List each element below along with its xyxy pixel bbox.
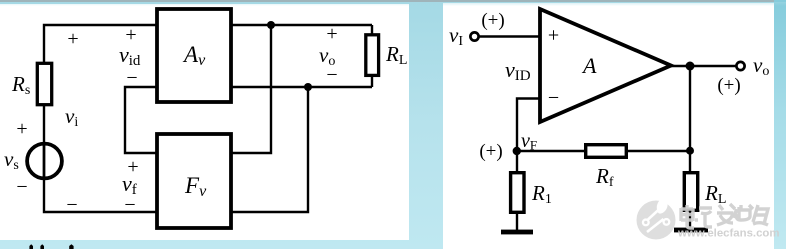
- svg-text:vs: vs: [4, 147, 19, 173]
- top edge line: [0, 0, 786, 2]
- svg-text:+: +: [67, 28, 78, 50]
- svg-text:RL: RL: [385, 42, 407, 68]
- junction at output: [686, 62, 695, 71]
- right edge strip tint: [774, 0, 786, 249]
- svg-text:−: −: [124, 194, 135, 216]
- op-amp A: [540, 9, 671, 122]
- watermark logo: [637, 197, 676, 240]
- terminal vI: [470, 32, 478, 40]
- wire: vF node to Rf: [517, 150, 584, 152]
- terminal vo: [736, 62, 744, 70]
- left white panel: [0, 4, 409, 240]
- block Av: [157, 9, 231, 102]
- junction Rf to RL branch: [686, 147, 694, 155]
- junction on bottom output rail: [304, 83, 312, 91]
- wire: Av bottom output rail to RL bottom: [232, 86, 372, 88]
- resistor RL (left): [366, 35, 379, 76]
- svg-text:(+): (+): [481, 10, 504, 31]
- wire: Fv right-bottom up to tap on bottom output rail: [232, 87, 308, 212]
- wire: output node down to RL: [689, 66, 691, 172]
- svg-text:vI: vI: [449, 23, 463, 49]
- wire: top-left rail from corner to Av: [44, 25, 156, 62]
- wire: minus input left and down to vF node: [517, 99, 540, 152]
- junction on top rail: [267, 21, 275, 29]
- svg-text:(+): (+): [717, 75, 740, 96]
- wire: RL top and bottom stubs: [371, 25, 373, 87]
- svg-text:Rf: Rf: [595, 164, 614, 190]
- resistor R1: [511, 173, 524, 213]
- wire: Av top output rail to RL: [232, 24, 372, 26]
- wire: op-amp output to vo terminal: [671, 65, 736, 67]
- svg-text:+: +: [548, 25, 559, 47]
- svg-text:A: A: [581, 53, 597, 78]
- node vF junction: [513, 147, 521, 155]
- svg-text:−: −: [326, 64, 337, 86]
- svg-text:−: −: [66, 194, 77, 216]
- svg-text:+: +: [326, 23, 337, 45]
- svg-text:vID: vID: [505, 57, 531, 84]
- svg-text:−: −: [548, 87, 559, 109]
- wire: R1 bottom to ground: [516, 213, 518, 231]
- svg-text:vF: vF: [521, 130, 537, 153]
- svg-text:vo: vo: [753, 53, 769, 79]
- wire: R1 top stub: [516, 151, 518, 172]
- wire: through source to bottom corner and bottom rail to Fv: [44, 143, 156, 212]
- svg-text:−: −: [16, 176, 27, 198]
- svg-text:www.elecfans.com: www.elecfans.com: [677, 228, 780, 240]
- ground under R1: [501, 230, 533, 235]
- wire: Rs bottom to source circle: [43, 105, 45, 143]
- wire: Rf to RL branch: [628, 150, 690, 152]
- svg-text:RL: RL: [704, 181, 726, 207]
- wire: vI terminal to op-amp plus input: [478, 35, 540, 37]
- svg-text:Rs: Rs: [11, 72, 30, 98]
- resistor Rf: [586, 145, 627, 158]
- svg-text:+: +: [16, 118, 27, 140]
- watermark chinese characters: [681, 204, 768, 228]
- wire: feedback from Av minus input to Fv input: [125, 87, 156, 153]
- resistor RL (right): [684, 173, 697, 211]
- wire: RL bottom to ground: [689, 210, 691, 229]
- svg-text:vi: vi: [65, 104, 78, 130]
- svg-text:(+): (+): [479, 141, 502, 162]
- wire: Fv right-top to tap on top rail: [232, 25, 271, 153]
- ground under RL: [674, 228, 708, 233]
- svg-text:R1: R1: [531, 181, 552, 207]
- right white panel: [443, 3, 774, 249]
- source vs: [27, 142, 62, 180]
- svg-text:vid: vid: [119, 42, 141, 69]
- cut-off text marks bottom left: [29, 244, 73, 249]
- block Fv: [157, 134, 231, 228]
- svg-text:−: −: [126, 67, 137, 89]
- resistor Rs: [37, 63, 51, 104]
